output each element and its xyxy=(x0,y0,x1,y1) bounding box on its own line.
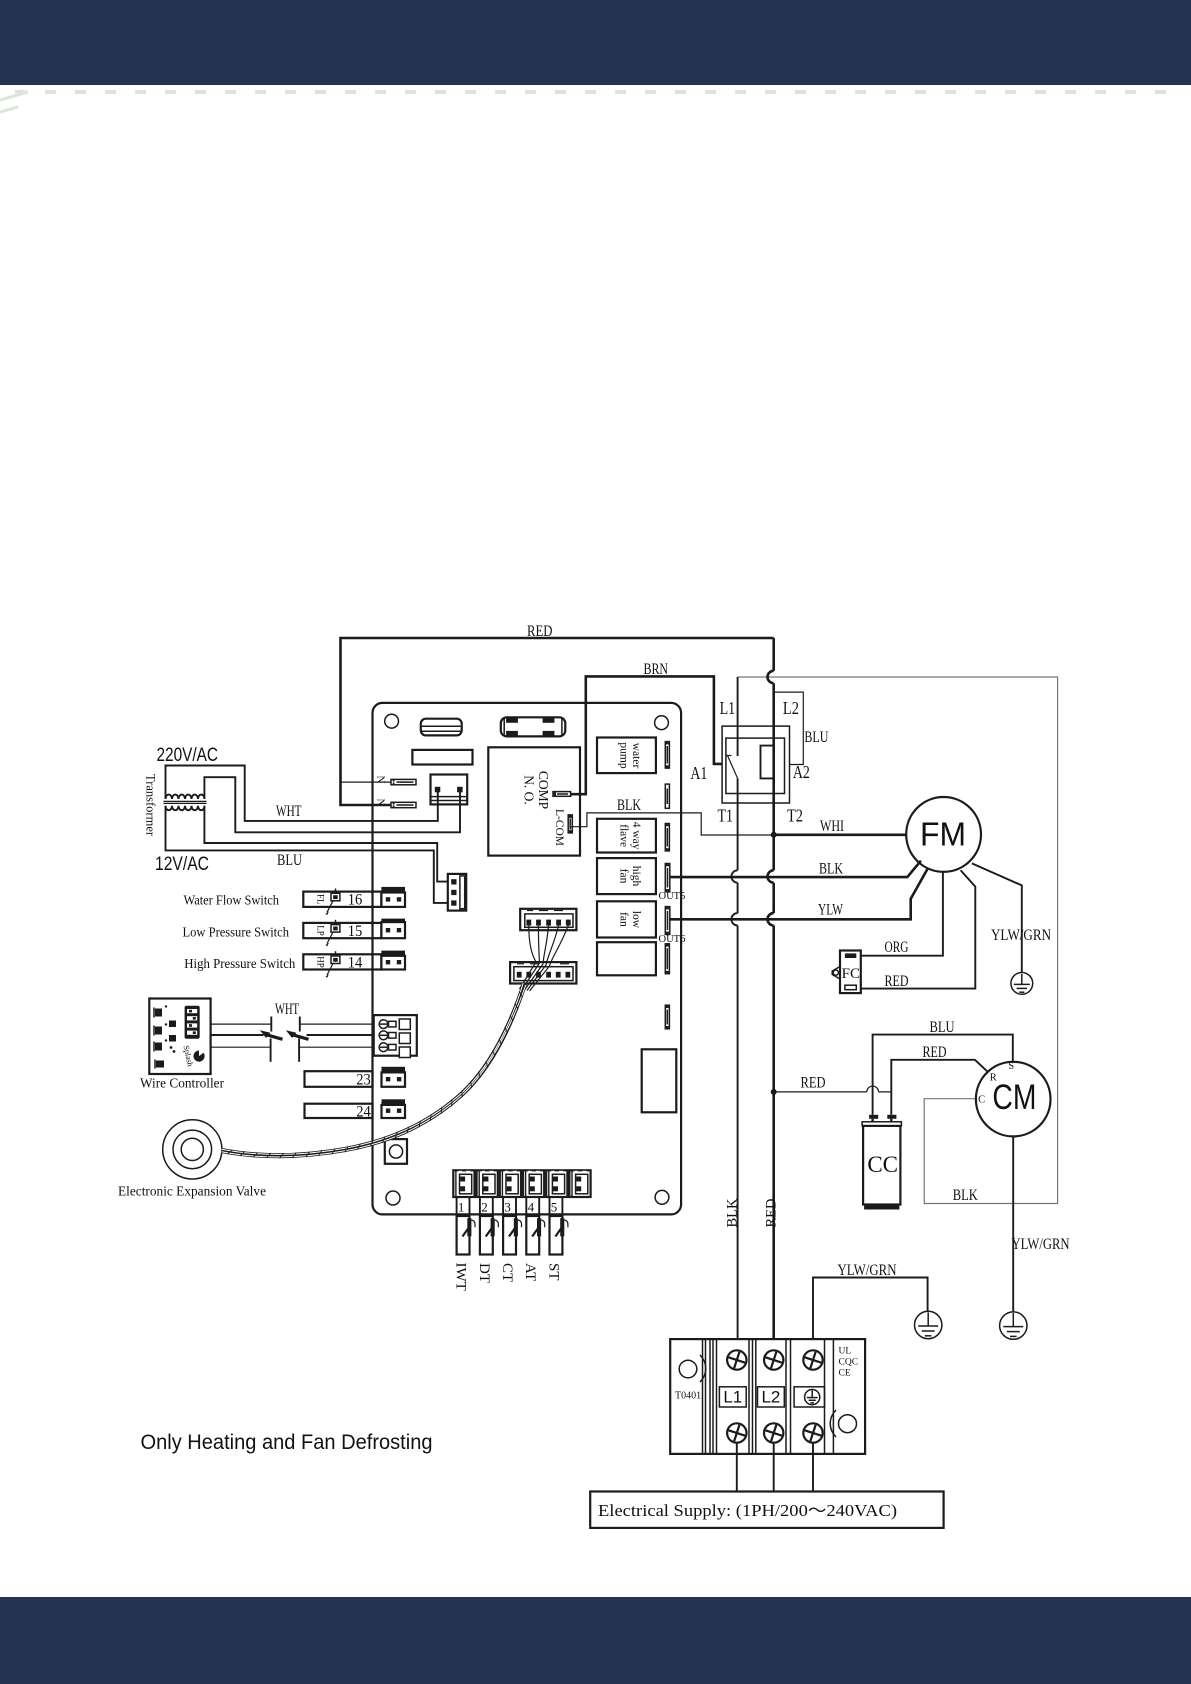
svg-text:A1: A1 xyxy=(690,763,707,783)
block right slot xyxy=(839,1415,857,1433)
cable braid ticks xyxy=(227,992,522,1159)
transformer T1 primary winding xyxy=(166,795,205,799)
svg-text:WHT: WHT xyxy=(275,1001,299,1018)
G_TERMINAL xyxy=(590,1339,943,1528)
component box U2 xyxy=(412,750,472,765)
svg-text:L2: L2 xyxy=(761,1388,780,1407)
G_CAPTION xyxy=(141,1430,433,1454)
relay box low fan xyxy=(597,901,656,937)
pcb edge pin 6 xyxy=(665,944,669,974)
ribbon wires CN2 to CN3 xyxy=(520,926,537,989)
pcb edge pin 7 xyxy=(665,1005,669,1029)
svg-text:16: 16 xyxy=(348,892,363,909)
disconnect arrow right xyxy=(286,1030,297,1038)
sensor probe CT xyxy=(503,1197,521,1255)
wire primary-right to relay pin xyxy=(204,777,460,832)
controller button S1 xyxy=(169,1021,176,1028)
controller LED D1 xyxy=(155,1009,162,1017)
junction dot RED branch xyxy=(771,1089,777,1095)
disconnect bar left xyxy=(270,1017,273,1062)
sensor probe AT xyxy=(526,1197,544,1255)
sensor connector 3 xyxy=(500,1170,521,1197)
hop T2 over BLK wire xyxy=(768,870,774,882)
pcb edge pin 2 xyxy=(665,784,669,808)
G_TRANSFORMER xyxy=(144,745,461,903)
svg-text:lowfan: lowfan xyxy=(618,911,643,929)
svg-text:RED: RED xyxy=(885,973,909,990)
svg-text:Wire Controller: Wire Controller xyxy=(140,1077,224,1092)
svg-text:WHT: WHT xyxy=(276,803,302,820)
svg-text:CC: CC xyxy=(867,1152,898,1177)
controller LED D2 xyxy=(155,1027,162,1035)
svg-text:Electrical Supply: (1PH/200～2: Electrical Supply: (1PH/200～240VAC) xyxy=(598,1501,897,1520)
contact blade xyxy=(728,756,738,779)
svg-text:AT: AT xyxy=(522,1263,538,1281)
svg-text:BLK: BLK xyxy=(617,797,641,814)
pcb edge pin 1 xyxy=(665,742,669,769)
G_CONTACTOR xyxy=(690,638,828,1356)
G_PCB xyxy=(373,703,686,1215)
pcb edge pin 4 (OUT5) xyxy=(665,864,670,892)
wire OUT5 BLK high fan xyxy=(670,861,921,877)
CC terminal right xyxy=(887,1115,896,1119)
block left slot xyxy=(679,1360,697,1378)
footer bar xyxy=(0,1597,1191,1684)
relay box spare xyxy=(597,942,656,975)
pin COMP N.O. xyxy=(553,792,571,797)
connector CN1 3-pin xyxy=(448,874,466,911)
coil bracket xyxy=(761,746,774,779)
wire L1 to T1 to terminal (BLK) xyxy=(737,677,739,1356)
svg-text:L2: L2 xyxy=(783,698,799,718)
wire YLW/GRN CM to ground xyxy=(1012,1136,1014,1311)
supply wire L2 xyxy=(773,1443,775,1492)
supply wire L1 xyxy=(736,1443,738,1492)
disconnect bar right xyxy=(298,1017,301,1062)
svg-text:RED: RED xyxy=(527,623,553,640)
svg-text:CM: CM xyxy=(992,1078,1036,1117)
hop RED branch over BLU xyxy=(867,1086,879,1092)
controller button S2 xyxy=(169,1035,176,1042)
relay box water pump xyxy=(597,738,656,774)
svg-text:Transformer: Transformer xyxy=(144,774,158,837)
svg-text:CE: CE xyxy=(839,1369,851,1379)
controller LED D4 xyxy=(156,1061,164,1068)
wire RED FM to FC xyxy=(861,870,976,988)
label box L2 xyxy=(758,1387,785,1407)
svg-text:HP: HP xyxy=(316,956,326,968)
svg-text:OUT5: OUT5 xyxy=(659,891,686,902)
FC mounting bracket xyxy=(832,967,840,980)
G_SENSORS xyxy=(453,1170,591,1291)
wire RED L2 to T2 to terminal xyxy=(772,638,775,1356)
svg-text:14: 14 xyxy=(348,955,363,972)
G_CM xyxy=(771,1019,1070,1356)
svg-text:RED: RED xyxy=(801,1075,826,1092)
svg-text:ST: ST xyxy=(545,1263,561,1281)
svg-text:4: 4 xyxy=(528,1200,535,1215)
svg-text:IWT: IWT xyxy=(453,1263,469,1291)
wire BLU secondary-left to connector pin 3 xyxy=(166,806,452,903)
svg-text:BLU: BLU xyxy=(930,1019,955,1036)
mounting hole top-left xyxy=(385,714,399,728)
screw earth bottom xyxy=(802,1422,824,1444)
svg-text:T2: T2 xyxy=(787,806,803,826)
svg-text:CT: CT xyxy=(499,1263,515,1282)
svg-text:C: C xyxy=(978,1094,985,1105)
svg-text:Electronic Expansion Valve: Electronic Expansion Valve xyxy=(118,1185,266,1200)
screw L1 top xyxy=(726,1349,748,1371)
svg-text:ORG: ORG xyxy=(885,939,909,956)
wire to terminal N1 xyxy=(341,781,392,783)
sensor probe IWT xyxy=(457,1197,475,1255)
svg-text:BLK: BLK xyxy=(819,861,843,878)
svg-text:LP: LP xyxy=(316,925,326,936)
svg-text:waterpump: waterpump xyxy=(618,742,643,768)
controller dot xyxy=(170,1046,173,1049)
svg-text:WHI: WHI xyxy=(820,818,844,835)
svg-text:YLW/GRN: YLW/GRN xyxy=(838,1262,897,1279)
controller LED D3 xyxy=(155,1043,162,1051)
svg-text:OUT6: OUT6 xyxy=(659,934,686,945)
hop T1 over BLK wire xyxy=(731,870,737,882)
scan artifact dash row xyxy=(15,90,1185,94)
wire BRN xyxy=(571,676,723,794)
connector row 24 xyxy=(305,1104,373,1118)
G_WIRES_TOP xyxy=(341,623,1058,1204)
wire thin L1 loop to CM common xyxy=(738,677,1058,1204)
G_FM xyxy=(771,797,1052,994)
svg-text:YLW/GRN: YLW/GRN xyxy=(1012,1236,1070,1253)
mounting hole bottom-left xyxy=(386,1191,400,1205)
screw L1 bottom xyxy=(726,1422,748,1444)
wires controller to PCB xyxy=(211,1023,383,1025)
compressor capacitor CC xyxy=(862,1122,901,1126)
svg-text:5: 5 xyxy=(551,1200,558,1215)
svg-text:BRN: BRN xyxy=(644,661,669,678)
fan capacitor FC xyxy=(840,951,861,994)
relay COMP N.O. box xyxy=(488,747,580,855)
svg-text:23: 23 xyxy=(356,1072,371,1089)
connector CN2 upper 5-pin xyxy=(520,909,576,930)
svg-text:T1: T1 xyxy=(717,806,733,826)
screw earth top xyxy=(802,1349,824,1371)
sensor probe ST xyxy=(550,1197,568,1255)
supply wire earth xyxy=(812,1443,814,1492)
controller buzzer xyxy=(193,1051,204,1062)
wire secondary-right to connector pin 1 xyxy=(204,806,451,882)
svg-text:Only Heating and Fan Defrostin: Only Heating and Fan Defrosting xyxy=(141,1430,433,1454)
wire WHI T2 to FM xyxy=(774,833,907,836)
svg-text:FM: FM xyxy=(920,816,966,853)
relay box high fan xyxy=(597,858,656,894)
svg-text:T0401: T0401 xyxy=(675,1391,701,1402)
sensor connector 4 xyxy=(523,1170,544,1197)
svg-text:1: 1 xyxy=(458,1200,465,1215)
contactor K1 inner box xyxy=(726,738,785,793)
wire RED mains top xyxy=(341,638,774,805)
EEV cable bundle xyxy=(222,983,526,1157)
wire BLU CC to CM S xyxy=(873,1035,1013,1115)
svg-text:Low Pressure Switch: Low Pressure Switch xyxy=(183,926,290,941)
label box earth xyxy=(794,1387,824,1407)
svg-text:DT: DT xyxy=(476,1263,492,1283)
svg-text:CQC: CQC xyxy=(839,1358,859,1368)
G_EEV xyxy=(118,983,526,1200)
svg-text:L1: L1 xyxy=(723,1388,742,1407)
ground symbol FM xyxy=(1011,973,1033,995)
terminal block T0401 xyxy=(670,1339,865,1454)
PCB main board outline xyxy=(373,703,682,1215)
svg-text:R: R xyxy=(990,1073,997,1084)
svg-text:L1: L1 xyxy=(720,698,736,718)
mounting hole bottom-right xyxy=(655,1190,669,1204)
wire branch to coil A2 xyxy=(774,692,804,764)
ground symbol CM xyxy=(1000,1312,1027,1339)
svg-text:FC: FC xyxy=(842,966,860,982)
pcb edge pin 5 (OUT6) xyxy=(665,907,670,935)
svg-text:FL: FL xyxy=(316,894,326,905)
slot component J1 xyxy=(421,719,462,736)
mount block with hole xyxy=(385,1139,407,1164)
wire YLW/GRN FM to ground xyxy=(972,863,1022,972)
wire RED branch from mains to CC xyxy=(774,1091,892,1093)
connector CN4 3-pin (controller) xyxy=(374,1015,417,1056)
G_CONTROLLER xyxy=(140,999,417,1092)
fuse F1 xyxy=(501,717,566,736)
relay RL1 xyxy=(431,775,468,805)
svg-text:220V/AC: 220V/AC xyxy=(157,745,219,766)
connector row 23 xyxy=(305,1071,373,1087)
wire YLW/GRN terminal to ground xyxy=(813,1278,928,1357)
svg-text:UL: UL xyxy=(839,1347,852,1357)
svg-text:15: 15 xyxy=(348,923,363,940)
hop T2 over YLW wire xyxy=(768,913,774,925)
svg-text:24: 24 xyxy=(356,1104,371,1121)
electrical supply box xyxy=(590,1492,943,1528)
contactor K1 outer box xyxy=(722,726,789,803)
controller DIP switch xyxy=(185,1006,200,1039)
svg-text:3: 3 xyxy=(504,1200,511,1215)
svg-text:L-COM: L-COM xyxy=(553,809,565,846)
G_SWITCHES xyxy=(183,887,406,1121)
screw L2 top xyxy=(763,1349,785,1371)
sensor probe DT xyxy=(480,1197,498,1255)
label box L1 xyxy=(719,1387,746,1407)
ground symbol supply xyxy=(915,1311,942,1338)
wire RED CC to CM R xyxy=(891,1060,987,1115)
svg-text:12V/AC: 12V/AC xyxy=(155,854,209,875)
svg-text:BLK: BLK xyxy=(953,1187,978,1204)
column separators xyxy=(716,1339,718,1454)
sensor connector 6 xyxy=(569,1170,590,1197)
svg-text:COMPN. O.: COMPN. O. xyxy=(522,771,552,809)
junction dot WHI-T2 xyxy=(771,832,777,838)
component box bottom-right xyxy=(642,1049,677,1112)
sensor connector 1 xyxy=(453,1170,474,1197)
svg-text:RED: RED xyxy=(764,1199,780,1228)
CC terminal left xyxy=(869,1115,878,1119)
sensor connector 2 xyxy=(477,1170,498,1197)
header bar xyxy=(0,0,1191,85)
hop T1 over YLW wire xyxy=(731,913,737,925)
transformer T1 secondary winding xyxy=(166,806,205,810)
wire ORG FM to FC xyxy=(861,872,943,956)
svg-text:BLU: BLU xyxy=(277,852,302,869)
svg-text:4 wayflave: 4 wayflave xyxy=(618,822,643,850)
electronic expansion valve EEV xyxy=(163,1120,222,1179)
svg-text:A2: A2 xyxy=(793,762,810,782)
wire controller box xyxy=(149,999,210,1075)
svg-text:BLK: BLK xyxy=(725,1198,741,1228)
compressor motor CM xyxy=(976,1062,1051,1137)
svg-text:Water Flow Switch: Water Flow Switch xyxy=(184,894,280,909)
svg-text:S: S xyxy=(1008,1061,1014,1072)
wire 220V primary-left to WHT xyxy=(166,766,438,821)
connector CN3 lower 6-pin xyxy=(510,962,576,983)
mounting hole top-right xyxy=(655,716,669,730)
transformer T1 core xyxy=(164,800,207,802)
svg-text:YLW: YLW xyxy=(818,902,844,919)
relay box 4 way valve xyxy=(597,819,656,853)
wire BLK L-COM to fan common xyxy=(571,813,774,835)
svg-text:BLU: BLU xyxy=(804,729,828,746)
pcb edge pin 3 xyxy=(665,824,669,851)
screw L2 bottom xyxy=(763,1422,785,1444)
svg-text:2: 2 xyxy=(481,1200,488,1215)
sensor connector 5 xyxy=(546,1170,567,1197)
svg-text:High Pressure Switch: High Pressure Switch xyxy=(184,957,295,972)
hop L2 over thin loop wire xyxy=(768,671,774,683)
disconnect arrow left xyxy=(260,1030,271,1038)
fan motor FM xyxy=(906,797,981,872)
wire OUT6 YLW low fan xyxy=(670,869,928,919)
svg-text:YLW/GRN: YLW/GRN xyxy=(991,927,1051,944)
svg-text:RED: RED xyxy=(923,1044,947,1061)
